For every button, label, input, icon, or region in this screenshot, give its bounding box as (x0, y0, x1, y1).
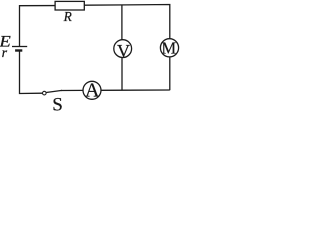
switch S contact circle (43, 91, 47, 95)
svg-text:S: S (52, 95, 63, 115)
battery E,r: short thick plate (15, 49, 22, 51)
resistor R1 box (55, 1, 84, 10)
ammeter A circle (83, 81, 101, 99)
wire: switch to ammeter (61, 89, 83, 91)
battery E,r: long plate (12, 46, 27, 48)
wire: top-left corner to resistor left (20, 6, 56, 47)
svg-text:R: R (63, 9, 72, 24)
motor M circle (160, 39, 178, 57)
wire: resistor right to top-right corner, down to motor (84, 5, 170, 39)
svg-text:A: A (85, 80, 100, 102)
wire: battery down to bottom-left corner and to switch (20, 51, 43, 94)
wire: ammeter to bottom-right corner (101, 89, 170, 91)
wire: motor to bottom-right corner (169, 57, 171, 90)
switch S lever (46, 90, 62, 92)
svg-text:M: M (162, 39, 177, 58)
svg-text:r: r (2, 46, 8, 61)
wire: voltmeter branch top (121, 5, 123, 40)
svg-text:V: V (117, 41, 130, 61)
voltmeter V circle (114, 40, 132, 58)
wire: voltmeter branch bottom (121, 58, 123, 91)
